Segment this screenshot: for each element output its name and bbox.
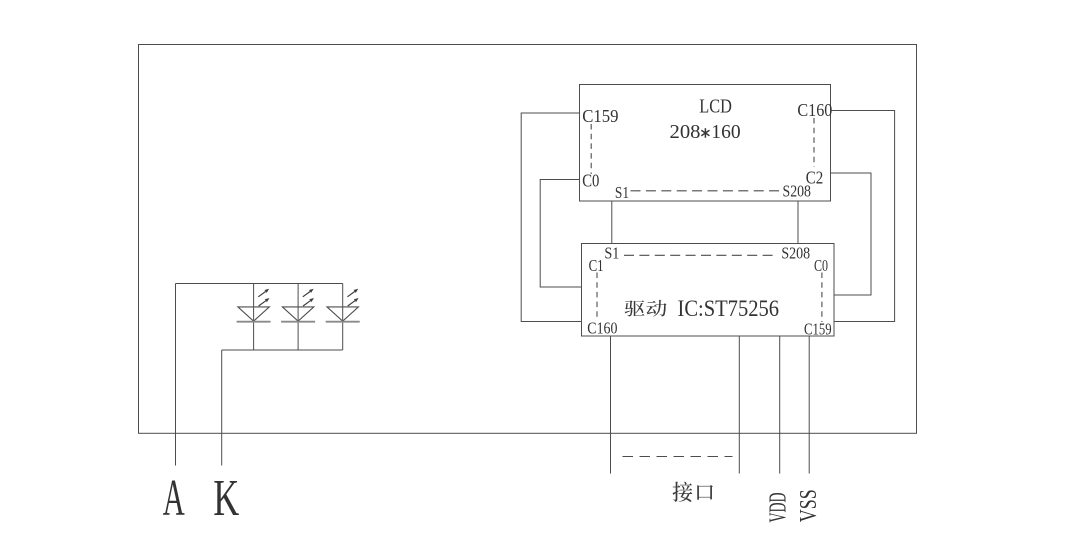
svg-text:C159: C159: [582, 106, 618, 126]
driver IC block: [582, 244, 835, 337]
svg-text:LCD: LCD: [699, 95, 732, 117]
LED D2: [281, 289, 315, 322]
wire LED1 branch: [253, 284, 255, 351]
svg-text:C1: C1: [589, 256, 604, 275]
dashed ellipsis S1..S208 (driver): [624, 254, 776, 256]
svg-text:S208: S208: [783, 182, 812, 201]
driver label 驱动 IC:ST75256: [625, 296, 779, 321]
wire S1 LCD-driver: [611, 201, 613, 244]
wire C160(LCD) to C159(driver): [831, 111, 895, 322]
backlight anode bus wire: [176, 283, 343, 285]
svg-text:C160: C160: [797, 100, 832, 120]
svg-text:C160: C160: [587, 318, 617, 337]
svg-text:160: 160: [711, 121, 740, 143]
svg-text:C0: C0: [814, 256, 828, 275]
dashed ellipsis C159..C0 (LCD): [590, 124, 592, 174]
wire LED2 branch: [297, 284, 299, 351]
LCD resolution label 208*160: [670, 121, 741, 143]
svg-text:K: K: [213, 470, 239, 527]
dashed ellipsis C160..C2 (LCD): [813, 118, 815, 167]
backlight cathode bus wire: [222, 349, 343, 351]
LED D3: [326, 289, 360, 322]
svg-text:C159: C159: [804, 320, 832, 339]
dashed ellipsis S1..S208 (LCD): [631, 190, 783, 192]
interface label 接口: [673, 482, 713, 502]
wire C159(LCD) to C160(driver): [521, 113, 581, 322]
dashed ellipsis C1..C160 (driver): [596, 273, 598, 322]
wire C0(LCD) to C1(driver): [540, 180, 581, 288]
dashed ellipsis interface pins: [623, 456, 733, 458]
wire cathode terminal K: [221, 350, 223, 466]
module outline: [139, 45, 917, 434]
svg-text:S1: S1: [615, 183, 629, 202]
svg-text:VSS: VSS: [796, 489, 822, 522]
svg-text:S208: S208: [781, 243, 810, 262]
wire anode terminal A: [175, 284, 177, 466]
svg-text:IC:ST75256: IC:ST75256: [678, 296, 780, 321]
wire C2(LCD) to C0(driver): [831, 173, 872, 295]
interface wire pinN: [738, 336, 740, 474]
LED D1: [237, 289, 271, 322]
wire LED3 branch: [342, 284, 344, 351]
wire S208 LCD-driver: [797, 201, 799, 244]
interface wire pin1: [610, 336, 612, 474]
wire VSS: [808, 336, 810, 474]
svg-text:A: A: [163, 470, 185, 527]
svg-text:VDD: VDD: [765, 493, 791, 523]
svg-text:208: 208: [670, 121, 701, 143]
LCD panel block: [580, 85, 831, 202]
svg-text:S1: S1: [604, 243, 619, 262]
wire VDD: [779, 336, 781, 474]
dashed ellipsis C0..C159 (driver): [821, 273, 823, 323]
